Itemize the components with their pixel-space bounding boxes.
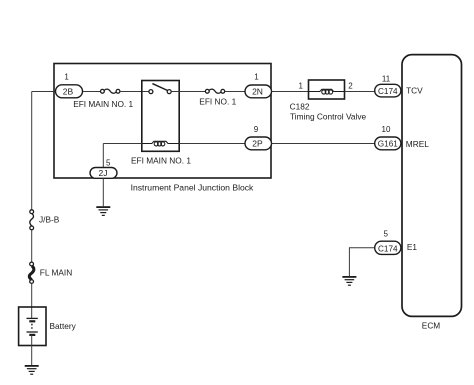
wire C182 to C174 xyxy=(345,91,375,93)
wire E1 to ground xyxy=(349,248,374,276)
wire 2J to ground xyxy=(102,178,104,206)
connector 2B pin 1 xyxy=(56,72,83,98)
svg-text:TCV: TCV xyxy=(406,85,423,95)
svg-text:MREL: MREL xyxy=(406,139,429,149)
ground (2J) xyxy=(96,207,110,215)
svg-text:G161: G161 xyxy=(378,140,398,149)
svg-text:EFI NO. 1: EFI NO. 1 xyxy=(199,96,236,106)
svg-text:Battery: Battery xyxy=(50,321,77,331)
svg-text:5: 5 xyxy=(383,230,388,239)
fusible link FL MAIN xyxy=(29,262,72,283)
svg-text:C182: C182 xyxy=(290,101,310,111)
battery xyxy=(19,307,77,346)
connector C174 pin 5 E1 xyxy=(375,230,418,255)
connector 2N pin 1 xyxy=(245,73,272,98)
wire fuse to 2N xyxy=(225,91,245,93)
wire battery to ground xyxy=(31,335,33,365)
fuse J/B-B xyxy=(30,210,60,230)
solenoid C182 Timing Control Valve xyxy=(290,80,367,121)
connector 2P pin 9 xyxy=(245,125,272,150)
fuse EFI MAIN NO. 1 xyxy=(73,89,133,109)
wire J/B-B to FL MAIN xyxy=(31,230,33,262)
ECM box xyxy=(402,55,462,331)
wire row1 battery feed to 2B xyxy=(32,91,56,93)
svg-text:Instrument Panel Junction Bloc: Instrument Panel Junction Block xyxy=(131,182,254,192)
svg-text:2N: 2N xyxy=(252,86,263,96)
svg-text:10: 10 xyxy=(382,125,391,134)
wire row2 junction to relay coil xyxy=(103,143,142,145)
svg-text:Timing Control Valve: Timing Control Valve xyxy=(290,111,366,121)
svg-text:FL MAIN: FL MAIN xyxy=(40,268,72,278)
wire left drop to J/B-B xyxy=(31,92,33,210)
svg-text:9: 9 xyxy=(254,125,259,134)
svg-text:2B: 2B xyxy=(63,86,74,96)
svg-text:2P: 2P xyxy=(252,138,263,148)
wire 2N to C182 xyxy=(272,91,309,93)
svg-text:ECM: ECM xyxy=(422,320,441,330)
Instrument Panel Junction Block box xyxy=(54,64,271,193)
wire 2J riser xyxy=(102,144,104,168)
ground (battery) xyxy=(25,366,39,374)
svg-text:1: 1 xyxy=(64,72,69,81)
connector 2J pin 5 xyxy=(90,159,117,179)
svg-text:5: 5 xyxy=(106,159,111,168)
svg-text:J/B-B: J/B-B xyxy=(39,215,60,225)
svg-text:C174: C174 xyxy=(378,244,398,253)
connector C174 pin 11 TCV xyxy=(375,74,423,97)
connector G161 pin 10 MREL xyxy=(375,125,430,150)
svg-text:11: 11 xyxy=(382,74,391,83)
svg-text:1: 1 xyxy=(299,82,304,91)
svg-text:2J: 2J xyxy=(99,168,108,178)
ground (E1) xyxy=(342,277,356,285)
svg-text:2: 2 xyxy=(348,82,353,91)
svg-text:EFI MAIN NO. 1: EFI MAIN NO. 1 xyxy=(131,156,191,166)
relay EFI MAIN NO. 1 xyxy=(131,81,191,166)
fuse EFI NO. 1 xyxy=(199,89,236,106)
svg-text:EFI MAIN NO. 1: EFI MAIN NO. 1 xyxy=(73,99,133,109)
svg-text:C174: C174 xyxy=(378,87,398,96)
wire FL MAIN to battery xyxy=(31,283,33,318)
wire fuse to relay xyxy=(120,91,149,93)
svg-text:1: 1 xyxy=(254,73,259,82)
wire relay to fuse EFI NO.1 xyxy=(171,91,205,93)
svg-text:E1: E1 xyxy=(407,242,418,252)
wire relay to 2P xyxy=(179,143,245,145)
wire 2B to fuse EFI MAIN NO.1 xyxy=(83,91,101,93)
wire 2P to G161 xyxy=(272,143,375,145)
